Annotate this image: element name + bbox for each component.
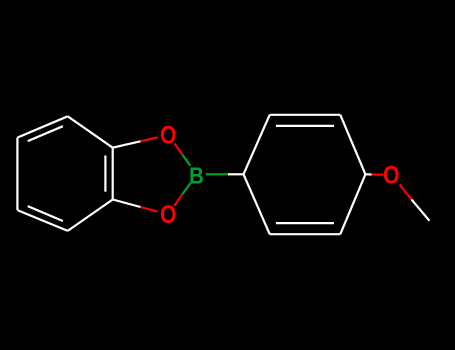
bond O4-CH3 red half bbox=[400, 185, 412, 200]
wire C6-C5 bbox=[16, 138, 18, 211]
bond B-C1' white half bbox=[228, 173, 244, 175]
svg-text:O: O bbox=[383, 161, 400, 189]
bond O3-B green half bbox=[182, 183, 190, 195]
bond O1-B green half bbox=[182, 155, 190, 166]
phenyl wire C3'-C4' bbox=[340, 115, 365, 175]
bond C4'-O4 red half bbox=[372, 173, 384, 175]
bond O3-B red half bbox=[174, 194, 182, 206]
bond C7a-O1 white half bbox=[113, 141, 141, 147]
bond C4'-O4 white half bbox=[365, 173, 371, 175]
bond C3a-O3 red half bbox=[141, 207, 158, 212]
phenyl wire C5'-C6' bottom edge bbox=[270, 233, 341, 235]
phenyl wire C6'-C1' bbox=[244, 174, 270, 234]
bond O1-B red half bbox=[175, 144, 183, 155]
phenyl wire C4'-C5' bbox=[340, 174, 365, 234]
phenyl wire C1'-C2' bbox=[244, 115, 270, 175]
benzene ring left: inner double line of fused bond bbox=[104, 156, 106, 192]
bond C3a-O3 white half bbox=[113, 200, 141, 208]
bond C7a-O1 red half bbox=[141, 137, 158, 141]
inner double line bottom edge bbox=[276, 222, 334, 224]
phenyl wire C2'-C3' top edge bbox=[270, 114, 341, 116]
wire C7-C6 bbox=[17, 116, 67, 137]
bond O4-CH3 white half bbox=[412, 200, 430, 221]
inner double line C5-C4 bbox=[28, 206, 63, 221]
wire C7a-C7 bbox=[68, 116, 113, 147]
benzene ring left: fused bond C7a-C3a bbox=[112, 148, 114, 200]
svg-text:B: B bbox=[189, 162, 204, 189]
bond B-C1' green half bbox=[206, 173, 228, 175]
inner double line top edge bbox=[276, 125, 334, 127]
wire C4-C3a bbox=[68, 200, 113, 231]
inner double line C7-C6 bbox=[28, 126, 63, 141]
svg-text:O: O bbox=[160, 201, 177, 229]
svg-text:O: O bbox=[160, 121, 177, 149]
wire C5-C4 bbox=[17, 210, 67, 231]
